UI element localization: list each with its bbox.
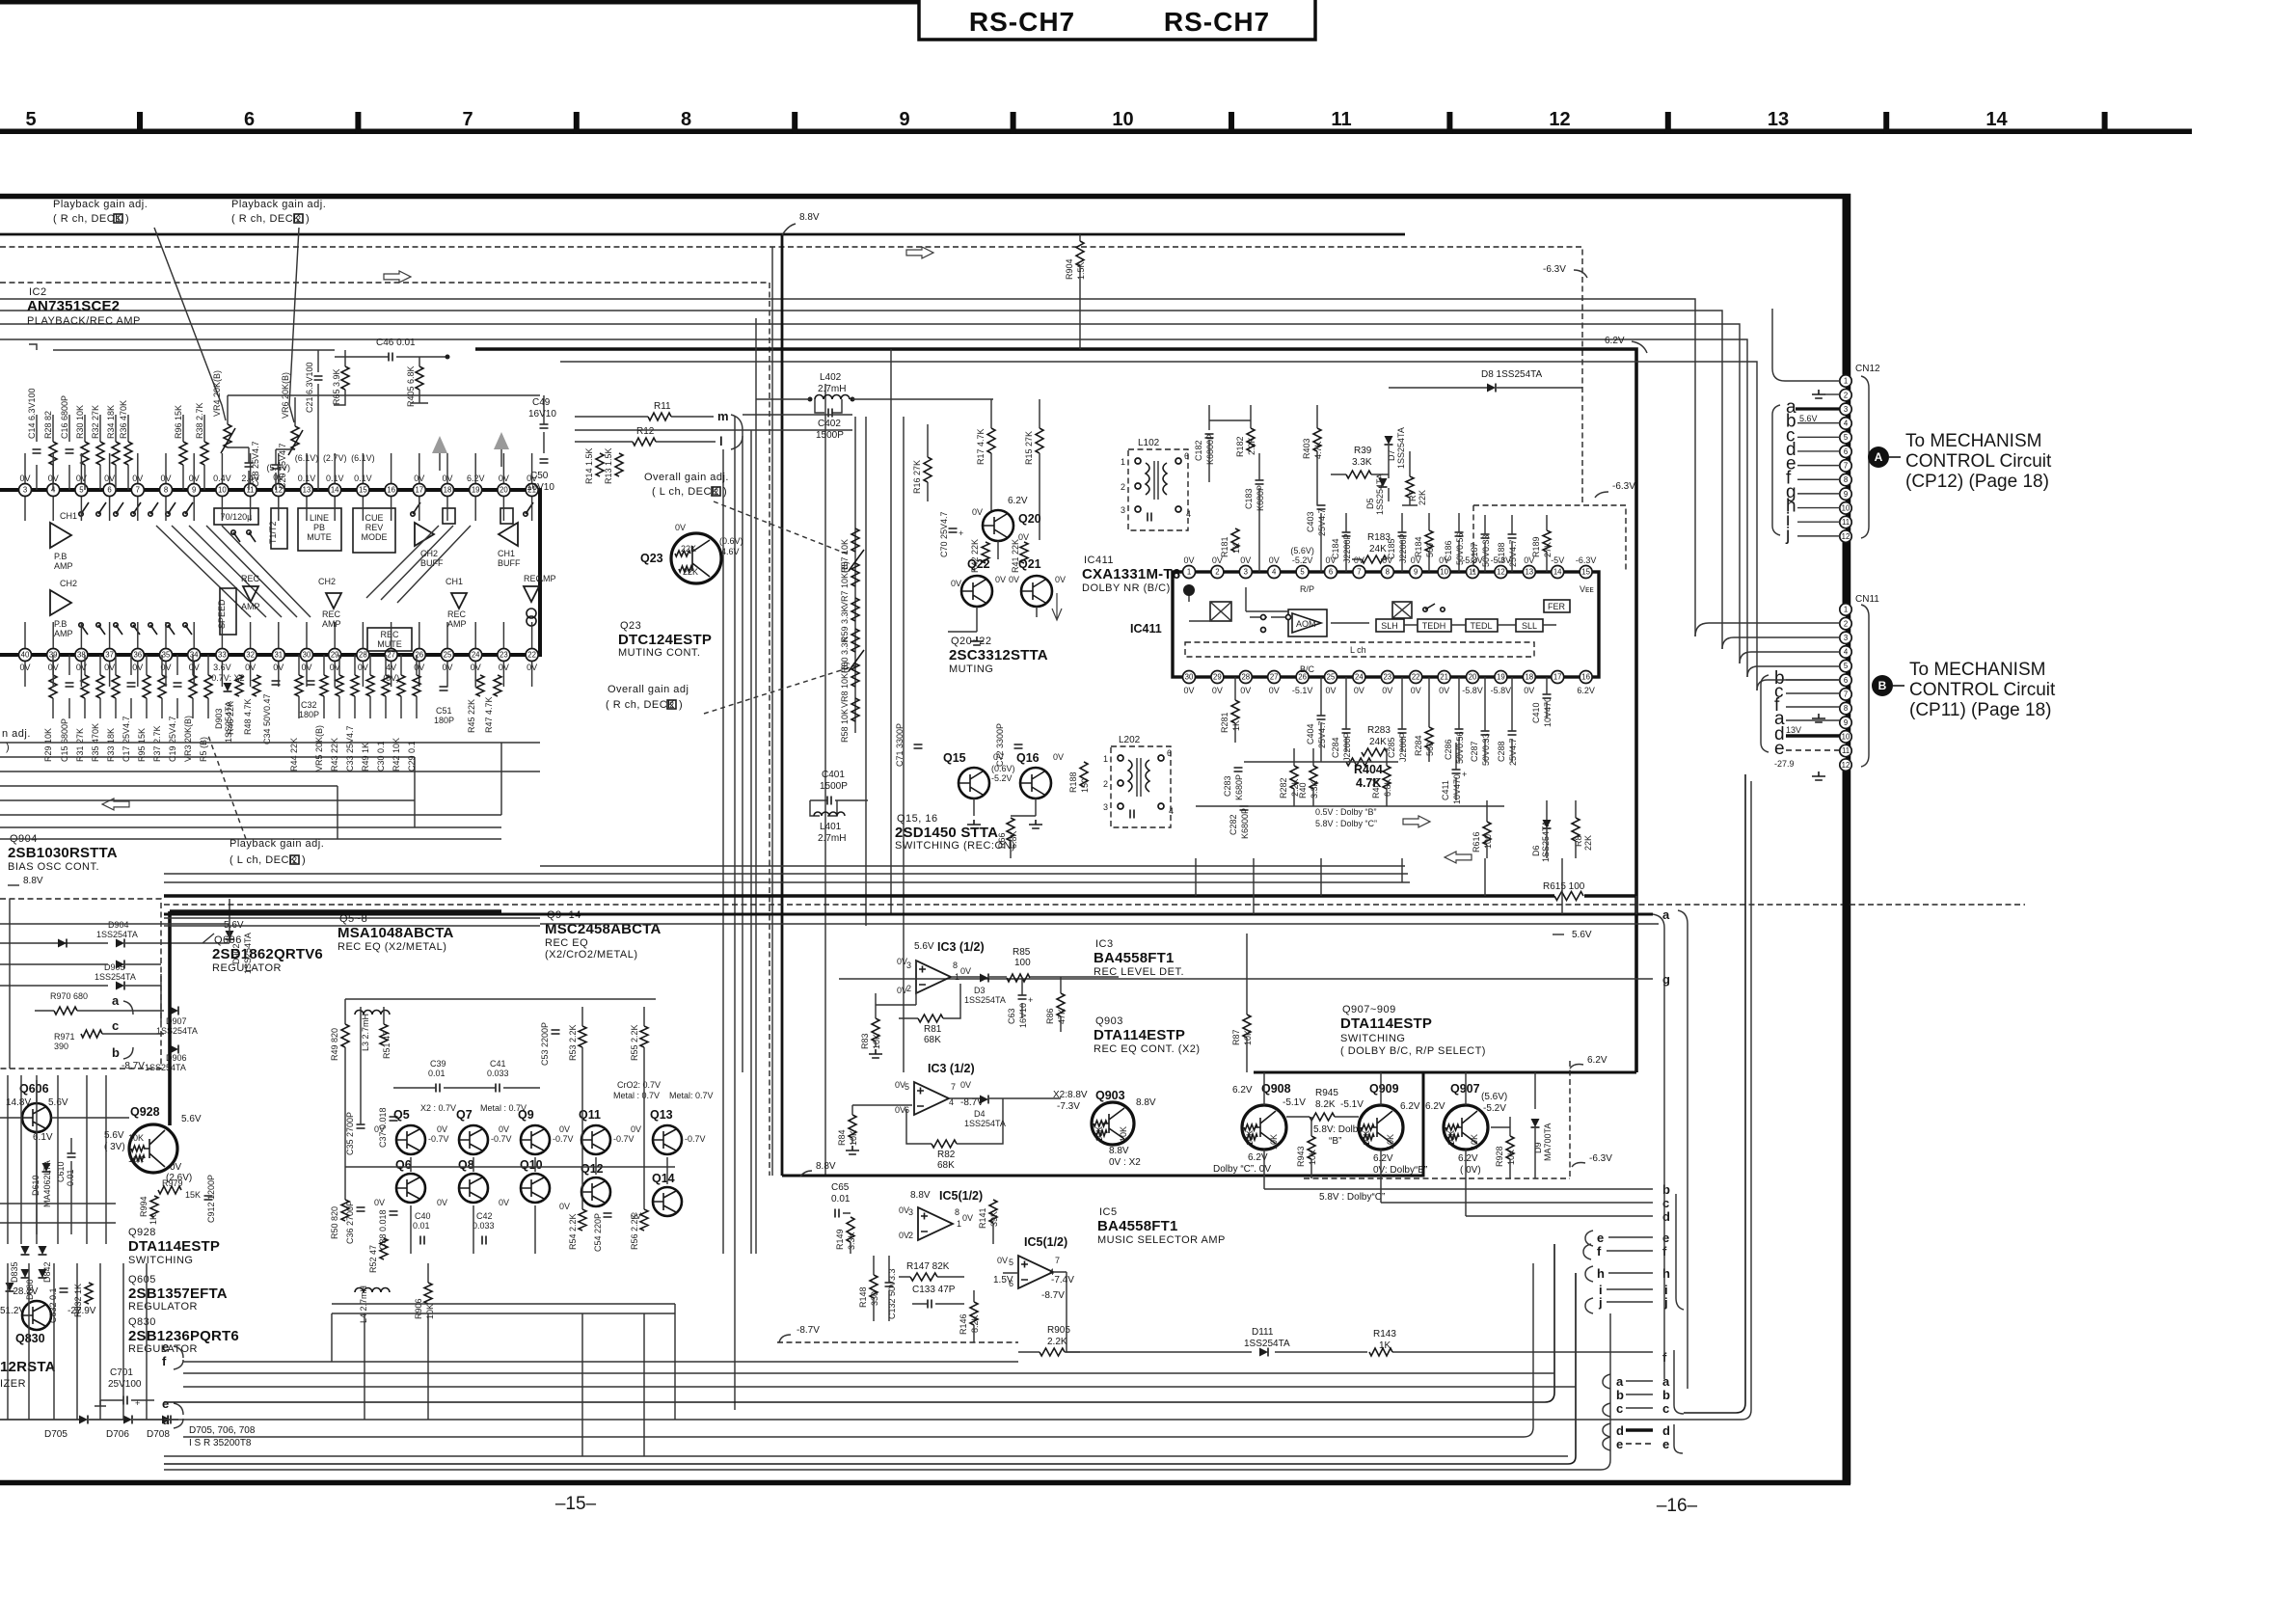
svg-text:1500P: 1500P <box>816 430 844 441</box>
diode D3 <box>980 974 988 983</box>
svg-text:9: 9 <box>1414 568 1418 577</box>
svg-text:0.01: 0.01 <box>428 1069 446 1078</box>
capacitor C288 <box>1508 731 1517 735</box>
svg-text:180P: 180P <box>434 716 454 725</box>
svg-text:C401: C401 <box>822 770 845 780</box>
svg-text:2: 2 <box>296 214 301 224</box>
svg-text:10K: 10K <box>425 1304 435 1319</box>
capacitor C287 <box>1481 731 1490 735</box>
block TEDL <box>1466 619 1498 632</box>
flow arrow <box>906 247 933 258</box>
svg-text:2: 2 <box>1844 619 1848 628</box>
svg-text:C17 25V4.7: C17 25V4.7 <box>122 716 131 762</box>
svg-text:R14 1.5K: R14 1.5K <box>584 447 594 484</box>
capacitor C50 16V10 <box>540 459 549 463</box>
svg-text:D706: D706 <box>106 1429 129 1440</box>
ruler scale with numbers 5-14 <box>0 109 2192 134</box>
svg-text:5.6V: 5.6V <box>1572 930 1592 940</box>
svg-text:6.2V: 6.2V <box>1232 1085 1253 1096</box>
svg-text:18: 18 <box>444 486 452 495</box>
svg-text:10K: 10K <box>1243 1030 1253 1045</box>
svg-text:IC411: IC411 <box>1084 555 1114 566</box>
op-amp IC2 body outline <box>0 490 540 655</box>
svg-text:R283: R283 <box>1367 725 1391 736</box>
svg-text:R17 4.7K: R17 4.7K <box>976 428 986 465</box>
svg-text:R28 82: R28 82 <box>43 411 53 439</box>
svg-text:C34 50V0.47: C34 50V0.47 <box>262 693 272 744</box>
bracket <box>1678 910 1688 1389</box>
svg-text:a: a <box>1662 1374 1670 1389</box>
svg-text:I S R 35200T8: I S R 35200T8 <box>189 1438 252 1448</box>
bus wires <box>164 866 1659 924</box>
svg-text:36: 36 <box>133 651 142 660</box>
svg-text:19: 19 <box>1497 673 1505 682</box>
svg-text:27K: 27K <box>1543 542 1553 557</box>
svg-text:0V: 0V <box>1269 686 1280 695</box>
wire R615 vertical <box>1635 896 1637 914</box>
svg-text:2SB1236PQRT6: 2SB1236PQRT6 <box>128 1328 239 1344</box>
svg-text:1500P: 1500P <box>820 781 848 792</box>
svg-text:L402: L402 <box>820 372 842 383</box>
L ch dashed strip <box>1185 642 1534 657</box>
svg-text:6: 6 <box>1184 451 1189 461</box>
svg-text:AN7351SCE2: AN7351SCE2 <box>27 298 120 314</box>
svg-text:51.2V: 51.2V <box>0 1306 25 1316</box>
svg-text:35: 35 <box>162 651 171 660</box>
svg-text:MUTE: MUTE <box>307 532 332 542</box>
svg-text:R51 47: R51 47 <box>382 1031 392 1059</box>
svg-text:Q8: Q8 <box>458 1158 474 1172</box>
svg-text:0V: 0V <box>1009 575 1019 584</box>
wire mid horizontals <box>575 415 852 430</box>
leader dashed <box>207 733 246 839</box>
svg-text:2SD1862QRTV6: 2SD1862QRTV6 <box>212 946 323 962</box>
svg-text:C404: C404 <box>1306 723 1315 744</box>
svg-text:DOLBY NR (B/C): DOLBY NR (B/C) <box>1082 582 1171 594</box>
wire Q904 box <box>0 924 230 964</box>
svg-text:h: h <box>1662 1266 1670 1281</box>
svg-text:6.2V: 6.2V <box>1458 1153 1478 1164</box>
svg-text:6.2V: 6.2V <box>1248 1152 1268 1163</box>
svg-text:1: 1 <box>1844 606 1848 614</box>
svg-text:Q907~909: Q907~909 <box>1342 1004 1396 1015</box>
svg-text:Metal: 0.7V: Metal: 0.7V <box>669 1091 714 1100</box>
svg-text:4: 4 <box>1844 420 1849 428</box>
svg-text:D6: D6 <box>1531 845 1541 856</box>
gray hatch arrow2 <box>494 432 509 449</box>
resistor R87 10K <box>1243 1015 1251 1038</box>
svg-text:a: a <box>1616 1374 1624 1389</box>
svg-text:2SB1030RSTTA: 2SB1030RSTTA <box>8 845 118 861</box>
svg-text:R616: R616 <box>1472 831 1481 853</box>
svg-text:8.8V: 8.8V <box>816 1161 836 1172</box>
svg-text:REC EQ: REC EQ <box>545 937 588 949</box>
svg-text:10V470: 10V470 <box>1452 774 1462 804</box>
svg-text:14: 14 <box>331 486 339 495</box>
svg-text:C182: C182 <box>1194 440 1203 461</box>
svg-text:MUTE: MUTE <box>377 639 402 649</box>
svg-text:0V: 0V <box>1524 686 1534 695</box>
svg-text:REC: REC <box>241 574 260 583</box>
svg-text:REV: REV <box>365 523 384 532</box>
connector CN11 pins 1-12 <box>1840 604 1869 771</box>
svg-text:6: 6 <box>244 109 255 130</box>
svg-text:j: j <box>1785 525 1790 545</box>
block 70/120u <box>214 508 258 525</box>
svg-text:0V: 0V <box>960 1080 971 1090</box>
svg-text:5.6V: 5.6V <box>104 1130 124 1141</box>
svg-text:MA700TA: MA700TA <box>1543 1123 1553 1161</box>
svg-text:6.2V: 6.2V <box>1605 336 1625 346</box>
svg-text:C21 6.3V100: C21 6.3V100 <box>305 362 314 413</box>
svg-text:C285: C285 <box>1387 737 1396 758</box>
svg-text:C32: C32 <box>301 700 317 710</box>
svg-text:-0.7V: -0.7V <box>553 1134 574 1144</box>
resistor R81 68K <box>918 1015 943 1022</box>
svg-text:C188: C188 <box>1497 542 1506 563</box>
resistor R17 4.7K <box>987 428 995 453</box>
svg-text:11: 11 <box>1842 746 1850 755</box>
svg-text:1SS254TA: 1SS254TA <box>1244 1339 1290 1349</box>
svg-text:8.2K: 8.2K <box>1315 1099 1336 1110</box>
svg-text:CXA1331M-T6: CXA1331M-T6 <box>1082 566 1180 582</box>
amp REC L <box>243 586 258 602</box>
thick bus with R615 <box>164 894 1636 898</box>
vertical wire <box>722 449 724 1254</box>
svg-text:4: 4 <box>1844 648 1849 657</box>
svg-text:27: 27 <box>387 651 395 660</box>
leader line <box>154 228 226 420</box>
svg-text:( 0V): ( 0V) <box>1460 1165 1481 1176</box>
svg-text:2SB1357EFTA: 2SB1357EFTA <box>128 1286 228 1302</box>
diode D610 <box>42 1163 51 1172</box>
resistor R13 1.5K <box>615 453 623 476</box>
svg-text:1SS254TA: 1SS254TA <box>95 972 136 982</box>
svg-text:C65: C65 <box>831 1182 850 1193</box>
svg-text:Q13: Q13 <box>650 1108 673 1122</box>
wires to CN12 letters <box>1653 914 1664 1379</box>
svg-text:J2200P: J2200P <box>1398 533 1408 563</box>
bracket de <box>1674 1424 1683 1453</box>
resistor R906 10K <box>424 1283 432 1304</box>
wire rounded3 <box>1742 781 1751 1420</box>
svg-text:J2200P: J2200P <box>1398 732 1408 762</box>
svg-text:10: 10 <box>1440 568 1448 577</box>
svg-text:DTA114ESTP: DTA114ESTP <box>1094 1027 1185 1043</box>
svg-text:2.7mH: 2.7mH <box>818 384 846 394</box>
svg-text:7: 7 <box>1844 462 1848 471</box>
capacitor C402 <box>815 399 842 413</box>
svg-text:R47 4.7K: R47 4.7K <box>484 696 494 733</box>
svg-text:25: 25 <box>1327 673 1336 682</box>
svg-text:R405 6.8K: R405 6.8K <box>406 365 416 407</box>
svg-text:b: b <box>112 1045 120 1060</box>
wire <box>756 398 993 400</box>
svg-text:2: 2 <box>669 700 674 710</box>
svg-text:R181: R181 <box>1220 536 1229 557</box>
svg-text:R5 (B): R5 (B) <box>199 737 208 762</box>
Q22 transistor <box>961 576 992 607</box>
svg-text:10K: 10K <box>1362 1130 1371 1146</box>
capacitor C70 <box>949 528 958 532</box>
svg-text:R86: R86 <box>1045 1008 1055 1024</box>
svg-text:PB: PB <box>313 523 325 532</box>
svg-text:(0.6V): (0.6V) <box>719 536 743 546</box>
svg-text:+: + <box>1028 995 1033 1005</box>
resistor R55 2.2K <box>640 1026 648 1047</box>
svg-text:C14 6.3V100: C14 6.3V100 <box>27 388 37 439</box>
resistor chain R57 VR7 R59 R60 VR8 R58 <box>840 417 864 743</box>
svg-text:D903: D903 <box>214 708 224 729</box>
IC411 row2 voltage labels <box>1183 686 1594 695</box>
svg-text:(X2/CrO2/METAL): (X2/CrO2/METAL) <box>545 949 638 961</box>
svg-text:0V: 0V <box>1411 686 1421 695</box>
resistor R11 <box>648 413 671 420</box>
svg-text:C411: C411 <box>1441 780 1450 800</box>
IC5 wires <box>843 1213 1080 1352</box>
wire CN12 pin1 feed <box>1772 309 1840 381</box>
svg-text:17: 17 <box>415 486 423 495</box>
svg-text:47K: 47K <box>1057 1009 1067 1024</box>
svg-text:“B”: “B” <box>1329 1136 1341 1147</box>
svg-text:-8.7V: -8.7V <box>1041 1290 1065 1301</box>
svg-text:BA4558FT1: BA4558FT1 <box>1094 950 1175 966</box>
svg-text:5: 5 <box>1844 662 1849 670</box>
svg-text:8.8V: 8.8V <box>1136 1097 1156 1108</box>
svg-text:-0.7V: -0.7V <box>685 1134 706 1144</box>
connector CN12 pins 1-12 <box>1840 375 1869 543</box>
net g line <box>839 978 1653 980</box>
svg-text:R85: R85 <box>1013 947 1031 958</box>
svg-text:40: 40 <box>21 651 30 660</box>
svg-text:CrO2: 0.7V: CrO2: 0.7V <box>617 1080 661 1090</box>
dashed box -6.3V <box>1473 505 1626 572</box>
svg-text:29: 29 <box>331 651 339 660</box>
svg-text:3.3K: 3.3K <box>1310 780 1319 798</box>
svg-text:180P: 180P <box>299 710 319 719</box>
svg-text:3: 3 <box>1844 634 1848 642</box>
svg-text:22: 22 <box>527 651 536 660</box>
svg-text:0V: 0V <box>962 1213 973 1223</box>
transistor Q14 <box>653 1187 682 1216</box>
svg-text:AMP: AMP <box>447 619 467 629</box>
svg-text:R148: R148 <box>858 1286 868 1308</box>
svg-text:Q606: Q606 <box>214 934 242 946</box>
svg-text:-5.1V: -5.1V <box>1283 1097 1306 1108</box>
IC411 body <box>1173 572 1599 677</box>
svg-text:R11: R11 <box>654 401 671 412</box>
svg-text:0V: 0V <box>1269 555 1280 565</box>
svg-text:R188: R188 <box>1068 771 1078 793</box>
rect contact <box>443 508 455 524</box>
resistor R14 1.5K <box>596 453 604 476</box>
svg-text:0V: 0V <box>374 1198 385 1207</box>
diode D5 <box>1379 478 1388 487</box>
svg-text:R904: R904 <box>1065 258 1074 280</box>
svg-text:6.8K: 6.8K <box>1383 778 1392 797</box>
svg-text:R40: R40 <box>1298 782 1308 798</box>
svg-text:D111: D111 <box>1252 1327 1274 1338</box>
bracket right <box>1676 1194 1684 1310</box>
svg-text:b: b <box>1662 1182 1670 1197</box>
svg-text:8.8V: 8.8V <box>1109 1146 1129 1156</box>
capacitor C184 <box>1342 532 1351 536</box>
transistor Q5 <box>396 1125 425 1154</box>
svg-text:7: 7 <box>1357 568 1361 577</box>
svg-text:REC EQ CONT. (X2): REC EQ CONT. (X2) <box>1094 1043 1201 1055</box>
svg-text:PLAYBACK/REC AMP: PLAYBACK/REC AMP <box>27 315 141 327</box>
svg-text:8: 8 <box>164 486 168 495</box>
block REC MUTE <box>367 628 412 651</box>
svg-text:R943: R943 <box>1296 1146 1306 1167</box>
amp REC CH1 <box>451 593 467 609</box>
capacitor C32 180P <box>307 681 315 685</box>
svg-text:27: 27 <box>1270 673 1279 682</box>
diode triangle <box>6 1283 14 1291</box>
svg-text:Vᴇᴇ: Vᴇᴇ <box>1580 584 1594 594</box>
svg-text:7: 7 <box>951 1082 956 1092</box>
svg-text:-6.3V: -6.3V <box>1576 555 1597 565</box>
svg-text:-7.4V: -7.4V <box>1051 1275 1074 1286</box>
svg-text:0V: 0V <box>1354 686 1364 695</box>
wire <box>824 384 826 1176</box>
svg-text:11: 11 <box>1842 518 1850 527</box>
svg-text:50V0.33: 50V0.33 <box>1481 534 1491 567</box>
black dot pin1 <box>1183 584 1195 596</box>
svg-text:-5.1V: -5.1V <box>1340 1099 1364 1110</box>
svg-text:R55 2.2K: R55 2.2K <box>630 1024 639 1061</box>
transistor Q7 <box>459 1125 488 1154</box>
svg-text:9: 9 <box>1844 718 1848 727</box>
svg-text:L ch: L ch <box>1350 645 1366 655</box>
switch contacts <box>79 512 83 516</box>
component bank below IC2 (R29 C15 R31 R35 R33 C17 R95 R37 C19 VR3) <box>43 655 212 762</box>
svg-text:a: a <box>1662 907 1670 922</box>
svg-text:19: 19 <box>472 486 480 495</box>
svg-text:R189: R189 <box>1531 536 1541 557</box>
svg-text:-7.3V: -7.3V <box>1057 1101 1080 1112</box>
svg-text:5: 5 <box>25 109 36 130</box>
svg-text:C184: C184 <box>1331 538 1340 559</box>
svg-text:L202: L202 <box>1119 735 1141 745</box>
svg-text:9: 9 <box>1844 490 1848 499</box>
top margin rule <box>0 0 918 5</box>
svg-text:6.2V: 6.2V <box>1577 686 1595 695</box>
svg-text:IC2: IC2 <box>29 286 47 298</box>
svg-text:R906: R906 <box>414 1298 423 1319</box>
svg-text:C286: C286 <box>1444 739 1453 760</box>
svg-text:To MECHANISM: To MECHANISM <box>1905 431 2041 451</box>
Q909 transistor <box>1359 1105 1403 1150</box>
svg-text:C912 1200P: C912 1200P <box>206 1175 216 1223</box>
svg-text:C15 6800P: C15 6800P <box>60 718 69 762</box>
svg-text:Dolby “C”. 0V: Dolby “C”. 0V <box>1213 1164 1271 1175</box>
svg-text:AMP: AMP <box>54 561 73 571</box>
svg-text:R281: R281 <box>1220 712 1229 733</box>
svg-text:20: 20 <box>1469 673 1477 682</box>
svg-text:REC EQ (X2/METAL): REC EQ (X2/METAL) <box>338 941 446 953</box>
diode extra Q904 box <box>116 961 124 969</box>
svg-text:C186: C186 <box>1444 540 1453 561</box>
svg-text:25V4.7: 25V4.7 <box>1508 539 1518 567</box>
svg-text:e: e <box>1662 1231 1669 1245</box>
svg-text:): ) <box>306 213 310 225</box>
capacitor C132 <box>885 1283 894 1286</box>
svg-text:D708: D708 <box>147 1429 170 1440</box>
svg-text:0V: 0V <box>170 1162 182 1173</box>
switch <box>411 512 415 516</box>
svg-text:10K: 10K <box>1386 1134 1395 1150</box>
svg-text:–15–: –15– <box>555 1494 597 1514</box>
svg-text:IC411: IC411 <box>1130 622 1162 636</box>
capacitor C282 <box>1240 806 1249 810</box>
resistor R405 <box>416 366 423 390</box>
svg-text:C288: C288 <box>1497 741 1506 762</box>
resistor R42 22K <box>982 542 989 563</box>
svg-text:j: j <box>1598 1295 1603 1310</box>
svg-text:10: 10 <box>1842 503 1850 512</box>
dashed box bottom <box>1304 1061 1570 1178</box>
svg-text:10: 10 <box>218 486 227 495</box>
svg-text:b: b <box>1616 1388 1624 1402</box>
wires below IC411 <box>1196 677 1576 858</box>
svg-text:25V4.7: 25V4.7 <box>1508 738 1518 766</box>
svg-text:C50: C50 <box>530 471 549 481</box>
svg-text:): ) <box>302 854 306 866</box>
svg-text:Q12: Q12 <box>581 1162 604 1176</box>
switch contacts <box>231 530 235 534</box>
svg-text:D610: D610 <box>31 1175 41 1196</box>
svg-text:R945: R945 <box>1315 1088 1338 1098</box>
Q16 transistor <box>1020 768 1051 798</box>
svg-text:4: 4 <box>1169 806 1174 816</box>
wire from c bracket <box>1684 774 1745 1413</box>
CN11 wire letters <box>1761 668 1840 769</box>
resistor R403 4.7K <box>1313 428 1321 451</box>
thick 5.6V feed <box>170 911 501 1125</box>
svg-text:K680P: K680P <box>1234 774 1244 800</box>
capacitor C285 <box>1398 729 1407 733</box>
svg-text:( R ch, DECK: ( R ch, DECK <box>231 213 301 225</box>
svg-text:0V: 0V <box>499 1198 509 1207</box>
svg-text:5.6V: 5.6V <box>914 941 934 952</box>
svg-text:6.2V: 6.2V <box>1373 1153 1393 1164</box>
amp CH2 PB <box>50 590 71 615</box>
svg-text:0V: 0V <box>1325 686 1336 695</box>
svg-text:R403: R403 <box>1302 438 1311 459</box>
svg-text:R81: R81 <box>924 1024 942 1035</box>
svg-text:15K: 15K <box>185 1190 201 1200</box>
svg-text:AOM: AOM <box>1296 619 1316 629</box>
svg-text:IC3 (1/2): IC3 (1/2) <box>937 940 985 954</box>
svg-text:C29 0.1: C29 0.1 <box>407 741 417 771</box>
svg-text:C42: C42 <box>476 1211 493 1221</box>
svg-text:10K: 10K <box>1470 1134 1479 1150</box>
svg-text:4.7K: 4.7K <box>1313 441 1323 459</box>
svg-text:8: 8 <box>1844 475 1848 484</box>
svg-text:h: h <box>1597 1266 1605 1281</box>
vertical wire <box>755 318 757 1254</box>
svg-text:R143: R143 <box>1373 1329 1396 1340</box>
svg-text:R44 22K: R44 22K <box>289 738 299 771</box>
svg-text:21: 21 <box>1440 673 1448 682</box>
block mixer1 <box>1210 602 1231 621</box>
svg-text:R66: R66 <box>997 832 1007 849</box>
svg-text:2.7mH: 2.7mH <box>818 833 846 844</box>
IC2 pin row 3-21 <box>19 484 539 497</box>
diode D9 <box>1531 1119 1540 1127</box>
svg-text:5: 5 <box>905 1082 909 1092</box>
